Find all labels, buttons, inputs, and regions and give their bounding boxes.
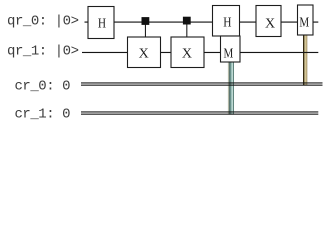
svg-text:M: M: [224, 46, 234, 61]
wire qr_1: [82, 52, 318, 53]
gate H2 (qr_0): [213, 6, 240, 37]
svg-text:cr_0: 0: cr_0: 0: [15, 78, 71, 94]
gate X1 (qr_1): [128, 37, 161, 68]
svg-text:cr_1: 0: cr_1: 0: [15, 107, 71, 123]
gate M1 measure (qr_1): [221, 36, 241, 62]
control dot 2: [183, 17, 191, 25]
gate X3 (qr_0): [256, 6, 281, 37]
svg-text:qr_1: |0>: qr_1: |0>: [7, 43, 79, 59]
wire cr_0 (doubled classical): [81, 82, 323, 83]
svg-text:H: H: [98, 16, 106, 31]
measure wire qr_0 to cr_0 (olive doubled vertical): [303, 35, 307, 85]
svg-text:qr_0: |0>: qr_0: |0>: [7, 13, 79, 29]
wire qr_0: [85, 22, 319, 23]
gate X2 (qr_1): [171, 37, 204, 68]
gate M2 measure (qr_0): [298, 5, 314, 35]
gate H1 (qr_0): [88, 7, 114, 39]
wire cr_1 (doubled classical): [81, 111, 318, 112]
svg-text:X: X: [182, 46, 192, 61]
svg-text:H: H: [223, 16, 231, 31]
control line to X2: [186, 22, 187, 38]
control line to X1: [145, 22, 146, 38]
measure wire qr_1 to cr_1 (teal doubled vertical): [228, 62, 234, 115]
svg-text:X: X: [265, 17, 275, 32]
svg-text:X: X: [139, 47, 149, 62]
svg-text:M: M: [299, 16, 309, 31]
control dot 1: [142, 17, 150, 25]
